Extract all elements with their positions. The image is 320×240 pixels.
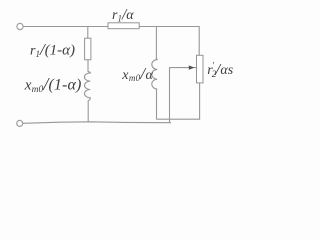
svg-text:xm0/(1-α): xm0/(1-α): [24, 74, 82, 95]
svg-text:r1/α: r1/α: [112, 7, 134, 24]
svg-text:αs: αs: [220, 63, 233, 78]
svg-text:xm0/α: xm0/α: [121, 64, 153, 83]
svg-text:r1/(1-α): r1/(1-α): [30, 40, 75, 59]
